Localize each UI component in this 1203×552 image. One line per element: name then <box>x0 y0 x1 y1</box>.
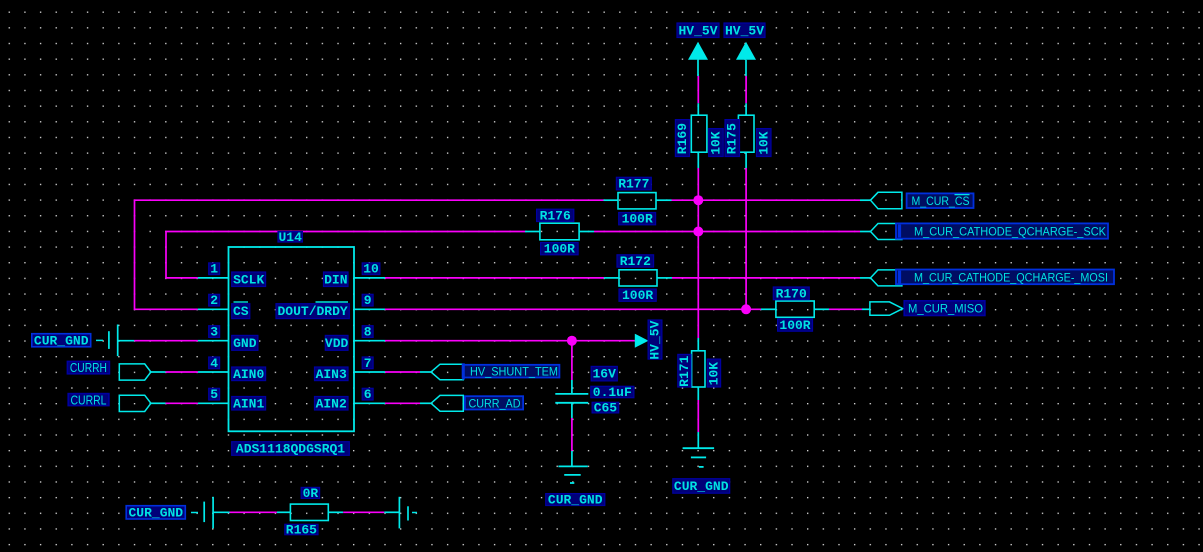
ground (R171) <box>683 432 715 467</box>
svg-text:R172: R172 <box>620 254 651 269</box>
pin R171 top <box>697 338 699 351</box>
pin number 2 <box>209 293 220 308</box>
power bar symbol (R165 left) <box>191 497 213 529</box>
value 10K (R171) <box>706 359 721 387</box>
svg-text:M_CUR_CS: M_CUR_CS <box>912 194 970 208</box>
wire pin7 to HV_SHUNT_TEM <box>385 371 420 373</box>
svg-text:8: 8 <box>364 325 372 340</box>
svg-text:C65: C65 <box>594 401 618 416</box>
value 100R (R176) <box>541 242 579 257</box>
resistor R175 <box>738 115 754 152</box>
lead CURRH <box>151 371 166 373</box>
power bar symbol (R165 right) <box>399 497 417 529</box>
pin name DOUT/DRDY <box>276 304 349 319</box>
svg-text:AIN2: AIN2 <box>316 396 347 411</box>
svg-text:100R: 100R <box>622 288 653 303</box>
lead left R165 <box>213 511 229 513</box>
pin R175 top <box>745 103 747 115</box>
wire CUR_GND to pin3 <box>134 340 198 342</box>
value 100R (R177) <box>619 212 656 227</box>
net label M_CUR_MISO <box>904 301 985 316</box>
svg-text:HV_5V: HV_5V <box>678 23 717 38</box>
lead to SCK port <box>860 231 871 233</box>
net label CURR_AD <box>465 396 523 410</box>
wire CS net left <box>135 200 604 309</box>
power symbol HV_5V arrow (left) <box>688 42 708 76</box>
pin 10 stub <box>354 277 385 279</box>
pin name AIN2 <box>315 396 349 411</box>
wire R171 to ground <box>697 400 699 432</box>
power symbol HV_5V arrow (right) <box>736 42 756 76</box>
overline DRDY <box>316 301 349 303</box>
svg-text:R165: R165 <box>286 523 317 538</box>
resistor R177 <box>604 193 672 209</box>
lead right R165 <box>384 511 399 513</box>
junction on VDD net <box>567 336 577 346</box>
wire CURRL to pin5 <box>166 402 198 404</box>
value 0.1uF (C65) <box>591 385 634 400</box>
svg-text:DIN: DIN <box>324 272 347 287</box>
label R170 <box>773 286 809 301</box>
pin 2 stub <box>198 308 229 310</box>
lead HV_SHUNT_TEM <box>420 371 431 373</box>
value 100R (R170) <box>778 318 813 333</box>
port HV_SHUNT_TEM glyph <box>431 364 463 380</box>
resistor R165 <box>277 504 343 520</box>
value 16V (C65) <box>591 366 617 381</box>
svg-text:GND: GND <box>233 336 257 351</box>
power label HV_5V (left) <box>677 23 719 38</box>
svg-text:CUR_GND: CUR_GND <box>128 505 183 520</box>
svg-text:CS: CS <box>233 304 249 319</box>
resistor R170 <box>761 301 829 317</box>
power label HV_5V (right) <box>724 23 765 38</box>
wire SCK net right <box>594 231 860 233</box>
pin 3 stub <box>198 340 229 342</box>
wire from R165 <box>343 511 384 513</box>
svg-text:ADS1118QDGSRQ1: ADS1118QDGSRQ1 <box>236 442 345 457</box>
pin number 6 <box>362 387 373 402</box>
pin name DIN <box>324 272 349 287</box>
svg-text:M_CUR_CATHODE_QCHARGE-_MOSI: M_CUR_CATHODE_QCHARGE-_MOSI <box>914 270 1108 284</box>
pin number 1 <box>209 262 220 277</box>
svg-text:100R: 100R <box>779 318 810 333</box>
value 10K (R175) <box>756 129 771 157</box>
net label M_CUR_CATHODE_QCHARGE-_SCK <box>896 223 1108 238</box>
port M_CUR_MISO glyph <box>870 302 903 315</box>
label R177 <box>616 177 651 192</box>
net label HV_SHUNT_TEM <box>463 363 560 379</box>
wire HV_5V to R175 <box>745 76 747 103</box>
svg-text:HV_SHUNT_TEM: HV_SHUNT_TEM <box>470 365 558 379</box>
wire pin6 to CURR_AD <box>385 402 420 404</box>
svg-text:10K: 10K <box>706 362 721 386</box>
value 100R (R172) <box>619 288 656 303</box>
port CURR_AD glyph <box>431 395 463 411</box>
svg-text:100R: 100R <box>544 242 575 257</box>
pin name SCLK <box>232 272 266 287</box>
wire to R165 <box>230 511 277 513</box>
wire R169 to R171 <box>697 168 699 338</box>
port SCK glyph <box>871 224 902 240</box>
pin number 8 <box>362 325 373 340</box>
svg-text:CURRH: CURRH <box>70 361 107 375</box>
wire MOSI net left (pin10 DIN) <box>385 277 604 279</box>
pin name AIN3 <box>315 367 349 382</box>
lead CURRL <box>151 402 166 404</box>
wire VDD to C65 <box>571 341 573 380</box>
wire MISO net right <box>829 308 862 310</box>
svg-text:9: 9 <box>364 293 372 308</box>
svg-text:1: 1 <box>210 262 218 277</box>
wire CS net right <box>672 199 861 201</box>
wire SCK net left <box>166 232 525 278</box>
wire MOSI net right <box>672 277 860 279</box>
pin R175 bottom <box>745 152 747 168</box>
pin number 10 <box>362 262 380 277</box>
net label CUR_GND (C65 ground) <box>546 493 605 508</box>
svg-text:SCLK: SCLK <box>233 272 264 287</box>
pin number 4 <box>209 356 220 371</box>
pin R169 bottom <box>697 152 699 168</box>
net label CURRL <box>68 393 109 407</box>
svg-text:CURRL: CURRL <box>71 393 107 407</box>
pin number 3 <box>209 325 220 340</box>
value 0R (R165) <box>301 486 319 501</box>
pin name AIN0 <box>232 367 266 382</box>
svg-text:0R: 0R <box>303 486 319 501</box>
wire C65 to ground <box>571 418 573 451</box>
net label CURRH <box>67 361 109 375</box>
label R175 <box>725 120 740 157</box>
net label M_CUR_CATHODE_QCHARGE-_MOSI <box>896 270 1114 285</box>
resistor R172 <box>604 270 672 286</box>
value 10K (R169) <box>709 129 724 157</box>
pin 4 stub <box>198 371 229 373</box>
pin 6 stub <box>354 402 385 404</box>
svg-text:10: 10 <box>363 262 379 277</box>
wire CURRH to pin4 <box>166 371 198 373</box>
svg-text:6: 6 <box>364 387 372 402</box>
svg-text:CUR_GND: CUR_GND <box>34 333 89 348</box>
svg-text:CURR_AD: CURR_AD <box>469 396 521 410</box>
label R171 <box>677 354 692 387</box>
svg-text:4: 4 <box>210 356 218 371</box>
pin number 5 <box>209 387 220 402</box>
pin name CS <box>232 304 250 319</box>
svg-text:10K: 10K <box>756 131 771 155</box>
capacitor C65 <box>555 380 588 418</box>
lead to MISO port <box>862 308 870 310</box>
svg-text:R169: R169 <box>675 123 690 154</box>
svg-text:10K: 10K <box>709 131 724 155</box>
net label CUR_GND (R171 ground) <box>673 479 730 494</box>
wire R175 to MISO net <box>745 168 747 309</box>
port M_CUR_CS glyph <box>871 192 902 208</box>
svg-text:2: 2 <box>210 293 218 308</box>
pin number 7 <box>362 356 373 371</box>
svg-text:R171: R171 <box>677 355 692 386</box>
pin 8 stub <box>354 340 385 342</box>
svg-text:M_CUR_MISO: M_CUR_MISO <box>908 302 983 316</box>
lead to M_CUR_CS port <box>860 199 871 201</box>
pin 1 stub <box>198 277 229 279</box>
label ADS1118QDGSRQ1 <box>232 442 350 457</box>
svg-text:R177: R177 <box>618 177 649 192</box>
lead to MOSI port <box>860 277 871 279</box>
svg-text:16V: 16V <box>592 367 616 382</box>
svg-text:100R: 100R <box>622 212 653 227</box>
wire MISO net left (pin9) <box>385 308 761 310</box>
resistor R169 <box>691 115 707 152</box>
power label HV_5V (VDD) <box>648 320 663 360</box>
pin 5 stub <box>198 402 229 404</box>
label U14 <box>278 230 302 245</box>
ground (C65) <box>558 451 587 483</box>
junction on MISO net <box>741 304 751 314</box>
svg-text:CUR_GND: CUR_GND <box>674 479 729 494</box>
svg-text:AIN1: AIN1 <box>233 396 264 411</box>
port MOSI glyph <box>871 270 902 286</box>
pin R171 bottom <box>697 387 699 400</box>
svg-text:R175: R175 <box>725 123 740 154</box>
junction on CS net <box>693 195 703 205</box>
svg-text:AIN3: AIN3 <box>316 367 347 382</box>
label C65 <box>592 401 619 416</box>
wire HV_5V to R169 <box>697 76 699 103</box>
svg-text:DOUT/DRDY: DOUT/DRDY <box>277 304 347 319</box>
svg-text:AIN0: AIN0 <box>233 367 264 382</box>
junction on SCK net <box>693 227 703 237</box>
pin R169 top <box>697 103 699 115</box>
pin name GND <box>232 335 258 351</box>
svg-text:0.1uF: 0.1uF <box>593 385 632 400</box>
svg-text:7: 7 <box>364 356 372 371</box>
resistor R171 <box>692 351 705 387</box>
svg-text:HV_5V: HV_5V <box>725 23 764 38</box>
svg-text:U14: U14 <box>278 230 302 245</box>
svg-text:M_CUR_CATHODE_QCHARGE-_SCK: M_CUR_CATHODE_QCHARGE-_SCK <box>914 224 1107 238</box>
pin name VDD <box>325 335 349 351</box>
svg-text:HV_5V: HV_5V <box>648 320 663 359</box>
port CURRL glyph <box>119 395 151 411</box>
pin name AIN1 <box>232 396 266 411</box>
resistor R176 <box>525 223 594 240</box>
lead CUR_GND to wire <box>118 340 135 342</box>
power symbol HV_5V arrow (VDD) <box>635 334 649 348</box>
svg-text:VDD: VDD <box>325 336 349 351</box>
net label M_CUR_CS <box>907 193 974 208</box>
svg-text:5: 5 <box>210 387 218 402</box>
label R172 <box>617 254 654 269</box>
svg-text:3: 3 <box>210 325 218 340</box>
pin 7 stub <box>354 371 385 373</box>
pin number 9 <box>362 293 373 308</box>
label R176 <box>537 208 574 223</box>
svg-text:CUR_GND: CUR_GND <box>548 493 603 508</box>
power bar symbol (pin3 CUR_GND) <box>96 325 118 357</box>
wire VDD net (pin8) <box>385 340 635 342</box>
pin 9 stub <box>354 308 385 310</box>
power port CUR_GND (R165) <box>126 505 185 520</box>
port CURRH glyph <box>119 364 151 380</box>
label R169 <box>675 120 690 157</box>
label R165 <box>285 523 318 538</box>
svg-text:R170: R170 <box>776 286 807 301</box>
power port CUR_GND (pin3) <box>32 333 91 348</box>
lead CURR_AD <box>420 402 431 404</box>
svg-text:R176: R176 <box>540 208 571 223</box>
op-amp U14 body <box>229 247 355 431</box>
